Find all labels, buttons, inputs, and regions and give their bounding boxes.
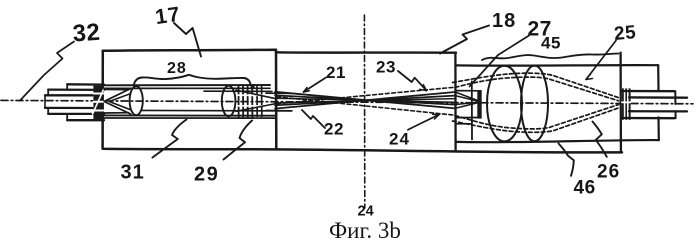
dashed envelope lower outer — [453, 108, 619, 132]
vertical dash-dot symmetry line 24 — [363, 15, 365, 208]
label 31 leader — [153, 120, 187, 158]
svg-text:45: 45 — [541, 34, 561, 53]
rod lens tube lines — [104, 84, 270, 86]
svg-text:21: 21 — [326, 63, 346, 82]
middle beam solid ray 4 — [275, 96, 455, 106]
lens L2 (left rod lens output) — [222, 86, 236, 117]
label 18 leader — [440, 26, 489, 54]
left fiber cable step lines — [67, 83, 104, 86]
svg-text:46: 46 — [574, 178, 596, 199]
middle beam solid ray 2 — [275, 92, 455, 109]
label 25 leader — [586, 41, 616, 80]
dashed envelope lower inner (ray 26) — [455, 105, 619, 129]
label 23 leader — [398, 71, 427, 91]
svg-text:Фиг. 3b: Фиг. 3b — [329, 218, 401, 243]
white slits across stack — [237, 95, 263, 106]
left housing box 17 — [103, 50, 277, 150]
sleeve box (right collimator housing) — [457, 64, 659, 67]
svg-text:22: 22 — [324, 120, 344, 139]
dashed ray 24 — [277, 97, 455, 115]
middle beam solid ray 1 — [275, 92, 455, 109]
left box fan (rays from fiber tip to lens 31) — [104, 89, 130, 114]
label 46 leader — [559, 144, 574, 176]
svg-text:32: 32 — [72, 19, 102, 48]
dashed envelope upper inner (ray 25) — [455, 77, 619, 101]
small dark chip on stack — [251, 84, 255, 89]
middle beam shallow rays — [275, 98, 455, 103]
plate stack 29 (vertical plates) — [238, 86, 240, 118]
svg-text:23: 23 — [376, 58, 396, 77]
label 22 leader — [302, 110, 325, 128]
right fiber cable step lines — [622, 90, 675, 92]
label 17 leader — [174, 23, 201, 57]
big lens E2 (46) — [521, 66, 548, 142]
wavy reference line 45 — [482, 54, 619, 61]
dashed ray 23 — [277, 87, 455, 104]
brace 28 — [134, 75, 251, 85]
middle/right housing bottom edge — [276, 149, 622, 152]
solid rays converging into stub — [455, 92, 477, 108]
right stub dark tip — [477, 90, 481, 119]
svg-text:18: 18 — [492, 10, 516, 32]
big lens E1 (46) — [487, 66, 522, 142]
svg-text:28: 28 — [167, 60, 187, 77]
left cable step verticals — [66, 84, 68, 120]
right ferrule block (hatched) — [622, 88, 631, 119]
svg-text:26: 26 — [597, 162, 620, 183]
middle beam solid ray 3 — [275, 95, 455, 104]
svg-text:29: 29 — [194, 164, 219, 186]
svg-text:31: 31 — [121, 162, 145, 184]
label 24 middle leader — [408, 114, 440, 130]
middle housing top edge — [276, 51, 456, 54]
label 32 leader — [20, 42, 74, 101]
svg-text:25: 25 — [613, 22, 637, 45]
divider wall at x=455 — [454, 53, 457, 150]
lens L1 (left rod lens input) — [130, 86, 143, 115]
right fiber stub housing 27 — [456, 90, 478, 92]
svg-text:24: 24 — [389, 130, 410, 149]
right housing right wall x=621 — [619, 53, 622, 153]
left ferrule block (hatched) — [93, 86, 103, 121]
label 27 leader — [470, 36, 530, 87]
svg-text:17: 17 — [154, 3, 182, 29]
optical axis (horizontal dash-dot centerline) — [1, 100, 693, 103]
label 29 leader — [224, 121, 253, 160]
converging rays after lens L2 — [236, 90, 276, 111]
short exit tube stubs — [266, 93, 292, 111]
label 21 leader — [304, 78, 327, 93]
label 26 leader — [593, 122, 607, 157]
dashed envelope upper outer — [453, 73, 619, 97]
